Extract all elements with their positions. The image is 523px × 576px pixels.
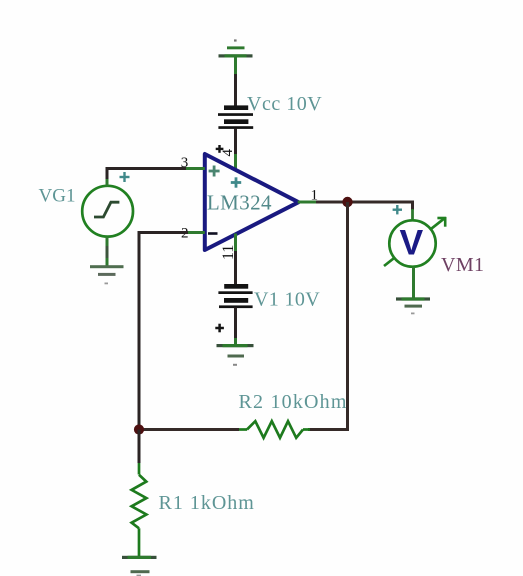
wire: R2 left lead to node A — [139, 428, 239, 431]
source VG1 — [82, 186, 133, 237]
wire: top ground to Vcc battery — [234, 58, 237, 107]
junction node A — [134, 424, 144, 434]
wire: Vcc battery to op-amp pin 4 — [234, 129, 237, 171]
wire: op-amp pin 11 to V1 battery — [234, 234, 237, 285]
svg-text:R1 1kOhm: R1 1kOhm — [159, 492, 255, 514]
svg-text:VM1: VM1 — [441, 254, 484, 276]
wire: VM1 to ground — [412, 267, 415, 298]
svg-text:V: V — [400, 223, 424, 263]
ground GND below V1 — [217, 344, 254, 366]
wire: feedback from junction down right side — [308, 202, 348, 430]
svg-text:V1 10V: V1 10V — [254, 289, 320, 311]
junction node output — [342, 197, 352, 207]
resistor R2 10kOhm — [237, 421, 310, 438]
battery V1 — [218, 284, 252, 308]
wire: op-amp pin 2 left and down to node A — [139, 233, 205, 431]
VM1 + polarity — [393, 205, 402, 214]
battery Vcc — [218, 105, 253, 128]
wire: VG1 bottom to ground — [106, 237, 109, 266]
svg-text:R2 10kOhm: R2 10kOhm — [239, 391, 348, 413]
wire: VG1 to op-amp pin 3 — [107, 169, 205, 187]
ground GND top (above Vcc, inverted) — [219, 39, 253, 57]
voltmeter VM1 — [384, 217, 446, 267]
wire: node A down to R1 — [138, 430, 141, 475]
ground GND below VG1 — [90, 265, 124, 284]
ground GND below R1 — [122, 556, 157, 576]
svg-text:VG1: VG1 — [39, 186, 76, 207]
battery V1 + polarity — [215, 324, 224, 333]
ground GND below VM1 — [396, 297, 430, 314]
svg-text:Vcc 10V: Vcc 10V — [247, 93, 322, 115]
wire: op-amp output pin 1 to the right — [298, 201, 413, 204]
op-amp + input marker — [209, 166, 220, 177]
resistor R1 1kOhm — [132, 475, 147, 529]
svg-text:LM324: LM324 — [207, 191, 272, 215]
wire: R1 to ground — [138, 528, 141, 556]
pin 4 + polarity marker — [216, 145, 224, 153]
svg-text:4: 4 — [220, 149, 236, 157]
wire: corner down to voltmeter — [411, 201, 414, 222]
op-amp - input marker — [208, 232, 218, 235]
wire: V1 battery to ground — [234, 308, 237, 347]
op-amp LM324 triangle — [205, 154, 299, 250]
op-amp center + marker — [231, 177, 241, 187]
VG1 + polarity — [120, 172, 130, 182]
